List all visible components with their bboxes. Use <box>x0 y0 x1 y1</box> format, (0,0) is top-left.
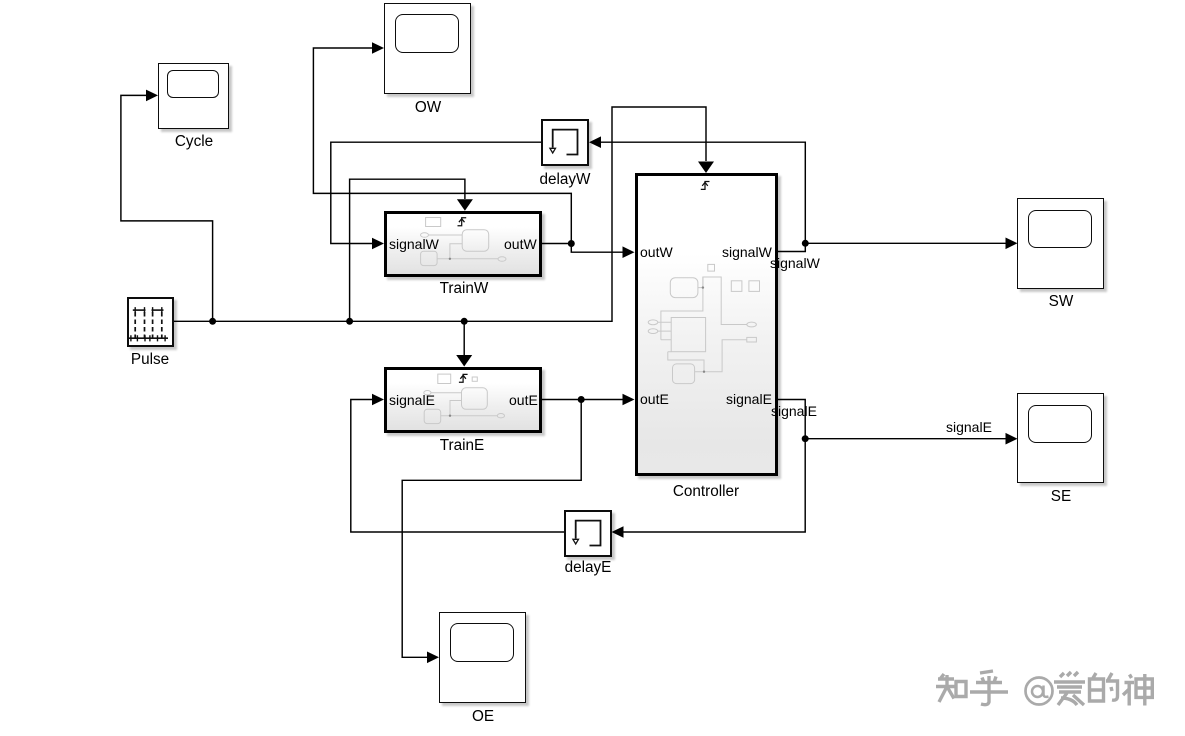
wire delayE to TrainE signalE <box>351 400 564 533</box>
trigger symbol TrainE <box>459 374 468 382</box>
wire branch outW to OW <box>313 48 571 244</box>
watermark char @ <box>1026 678 1053 705</box>
wire branch to TrainE trigger <box>463 321 465 355</box>
scope Cycle <box>158 63 229 129</box>
watermark 知乎 @爱的神 <box>930 665 1165 713</box>
arrowhead into delayW (left) <box>589 136 601 148</box>
port label signalW (Controller) <box>722 245 772 259</box>
scope OE <box>439 612 526 703</box>
wire TrainW outW to Controller <box>542 244 624 253</box>
label Controller <box>673 484 739 499</box>
wire branch signalW to delayW <box>600 142 805 243</box>
arrowhead into TrainE signalE <box>372 394 384 406</box>
wire branch to TrainW trigger <box>350 179 465 321</box>
label SW <box>1048 294 1073 309</box>
wire TrainE outE to Controller <box>542 399 624 401</box>
scope SW <box>1017 198 1104 289</box>
arrowhead into SW <box>1006 238 1018 250</box>
trigger symbol TrainW <box>458 217 467 225</box>
junction dot outE-OE <box>578 396 585 403</box>
label SE <box>1050 489 1070 504</box>
arrowhead into OE <box>427 652 439 664</box>
label delayE <box>565 560 612 575</box>
wire branch to Cycle <box>121 95 213 321</box>
scope SE <box>1017 393 1104 483</box>
arrowhead into Cycle <box>146 90 158 102</box>
port label outW (Controller) <box>640 245 673 259</box>
label TrainE <box>440 438 485 453</box>
arrowhead into Controller outW <box>623 246 635 258</box>
arrowhead into delayE (left) <box>612 526 624 538</box>
wire Controller signalW to SW <box>778 243 1007 251</box>
wire label signalE (near Controller) <box>771 404 817 418</box>
port label outE (Controller) <box>640 392 669 406</box>
junction dot Pulse-Cycle <box>209 318 216 325</box>
wire branch signalE to delayE <box>623 439 806 532</box>
wire Controller signalE to SE <box>778 400 1007 439</box>
junction dot Pulse-TrainE trigger <box>461 318 468 325</box>
wire label signalW <box>770 256 820 270</box>
junction dot Pulse-TrainW trigger <box>346 318 353 325</box>
wire branch outE to OE <box>402 400 581 658</box>
wire delayW to TrainW signalW <box>331 142 541 243</box>
label OE <box>471 709 493 724</box>
port label signalE (Controller) <box>726 392 772 406</box>
port label outW (TrainW out) <box>504 237 537 251</box>
port label outE (TrainE out) <box>509 393 538 407</box>
watermark char 的 <box>1090 673 1104 701</box>
watermark char 知 <box>936 674 957 702</box>
arrowhead into SE <box>1006 433 1018 445</box>
arrowhead into Controller trigger (down) <box>698 162 714 174</box>
port label signalW (TrainW in) <box>389 237 439 251</box>
trigger symbol Controller <box>700 182 709 190</box>
watermark char 乎 <box>970 671 1008 705</box>
subsystem Controller <box>635 173 778 476</box>
wire Pulse output trunk <box>174 107 706 321</box>
label Cycle <box>174 134 212 149</box>
junction dot signalE-delayE <box>802 435 809 442</box>
arrowhead into OW <box>372 42 384 54</box>
delay block delayE <box>564 510 612 557</box>
arrowhead into TrainW trigger (down) <box>457 199 473 211</box>
arrowhead into TrainE trigger (down) <box>456 355 472 367</box>
subsystem TrainE <box>384 367 542 433</box>
wire label signalE (near SE) <box>946 420 992 434</box>
label delayW <box>539 172 590 187</box>
watermark char 爱 <box>1054 672 1085 705</box>
pulse generator Pulse <box>127 297 174 347</box>
label TrainW <box>439 281 488 296</box>
port label signalE (TrainE in) <box>389 393 435 407</box>
scope OW <box>384 3 471 94</box>
label Pulse <box>131 352 169 367</box>
delay block delayW <box>541 119 589 166</box>
arrowhead into TrainW signalW <box>372 238 384 250</box>
arrowhead into Controller outE <box>623 394 635 406</box>
junction dot outW-OW <box>568 240 575 247</box>
watermark char 神 <box>1123 675 1134 706</box>
label OW <box>415 100 441 115</box>
subsystem TrainW <box>384 211 542 277</box>
junction dot signalW-delayW <box>802 240 809 247</box>
